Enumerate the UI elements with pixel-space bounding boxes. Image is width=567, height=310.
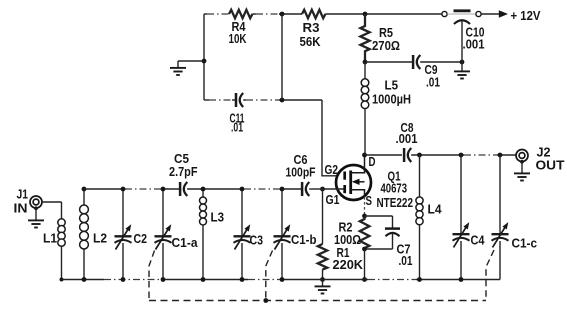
node ground tap junction [202,59,207,64]
wire J1 to L1 [42,201,61,203]
svg-text:IN: IN [14,201,28,216]
node C3 top [240,187,245,192]
variable capacitor C3 [234,189,264,280]
wire R2 bottom to rail [364,249,366,280]
svg-text:G1: G1 [326,192,340,207]
transistor Q1 40673 NTE222 [325,154,414,216]
svg-text:10K: 10K [229,31,247,46]
svg-text:L1: L1 [43,231,57,246]
wire bottom ground rail [62,279,105,281]
node R4/R3 junction [280,12,285,17]
node L4 bottom [417,277,422,282]
variable capacitor C1-a [155,189,199,280]
variable capacitor C2 [115,189,148,280]
node C1-a top [161,187,166,192]
svg-text:C4: C4 [471,233,486,248]
wire to C9 [365,61,412,63]
resistor R1 220K [318,189,364,280]
wire left vertical of bias loop [203,14,205,100]
node C11/divider junction [280,98,285,103]
svg-text:L5: L5 [385,78,399,93]
node L2 top [82,187,87,192]
svg-text:270Ω: 270Ω [372,38,400,53]
node R3/R5 junction [363,12,368,17]
svg-text:220K: 220K [333,257,364,272]
ground under C10 [454,62,470,79]
wire C7 bottom to R2 bottom [365,248,393,250]
wire gang dash from C1-a [149,251,155,300]
svg-text:C1-a: C1-a [172,235,199,250]
wire divider vertical [281,14,283,100]
capacitor C7 .01 [385,216,413,268]
node L4 top [417,153,422,158]
wire R4 to R3 [252,13,256,15]
wire top rail left (gnd side of R4) [204,13,207,15]
node C4 bottom [459,277,464,282]
wire C6 to G1 node [309,188,322,190]
variable capacitor C1-b [274,189,317,280]
svg-text:56K: 56K [300,34,322,49]
svg-text:L2: L2 [93,231,107,246]
node R2/C7 junction [362,247,367,252]
node L3 top [201,187,206,192]
svg-text:100pF: 100pF [286,165,316,180]
variable capacitor C4 [453,155,486,280]
connector J1 IN [14,187,43,216]
node L3 bottom [201,277,206,282]
wire output rail [411,154,464,156]
node R5/L5/C9 junction [363,60,368,65]
wire G2 feed [322,100,344,176]
svg-text:L4: L4 [428,202,443,217]
inductor L3 [200,189,225,280]
svg-text:C1-b: C1-b [291,232,317,247]
node L1 on rail [60,278,64,282]
wire gang dash from C1-c [486,250,494,300]
wire drain to C8 [365,154,403,156]
node C1-b bottom [280,277,285,282]
svg-text:C3: C3 [250,233,264,248]
svg-text:2.7pF: 2.7pF [169,164,198,179]
node C4 top [459,153,464,158]
wire gang dash from C1-b [266,251,273,300]
node C1-a bottom [161,277,166,282]
node source junction [362,214,367,219]
ground under J2 [514,162,530,181]
terminal circle left [442,11,447,16]
inductor L4 [416,155,442,280]
variable capacitor C1-c [492,155,538,280]
wire bias loop bottom right [243,99,246,101]
ground top-left [170,61,186,75]
wire R3 to supply terminal [325,13,442,15]
svg-text:.001: .001 [463,37,485,52]
wire arrow to +12V [481,8,540,23]
svg-text:+ 12V: + 12V [511,8,541,23]
node C1-c top [498,153,503,158]
connector J2 OUT [516,145,565,173]
wire C9 to C10 node [420,61,462,63]
svg-text:40673: 40673 [381,181,408,196]
node C1-b top [280,187,285,192]
svg-text:D: D [369,154,376,169]
capacitor C11 .01 [230,93,245,135]
svg-text:.01: .01 [231,120,243,135]
terminal circle right [476,11,481,16]
ground under J1 [28,208,44,227]
node drain junction [362,153,367,158]
capacitor C5 2.7pF [169,151,198,196]
resistor R4 [229,10,253,46]
svg-text:1000µH: 1000µH [372,92,411,107]
capacitor C6 100pF [286,152,316,196]
node C2 top [121,187,126,192]
svg-text:S: S [366,193,373,208]
capacitor C9 .01 [413,55,440,90]
node L2 bottom [82,277,87,282]
node C2 bottom [121,277,126,282]
svg-text:L3: L3 [211,210,225,225]
wire between supply terminals [447,13,475,15]
capacitor C8 .001 [396,120,418,162]
inductor L5 [361,62,411,155]
svg-text:R3: R3 [303,20,320,35]
svg-text:OUT: OUT [536,158,565,173]
svg-text:.01: .01 [426,75,440,90]
capacitor C10 .001 [454,11,485,62]
wire tank rail L2 to C5 [84,188,125,190]
wire tank rail C5 to C6 [187,188,244,190]
resistor R3 [300,10,326,49]
resistor R2 100 ohm [334,216,369,249]
svg-text:C2: C2 [134,231,148,246]
svg-text:C1-c: C1-c [512,236,538,251]
node R1 on rail [320,277,325,282]
resistor R5 [360,14,400,62]
svg-text:.01: .01 [399,253,413,268]
node source leg on rail [362,277,367,282]
ground under R1 [315,280,331,294]
wire source to C7 [365,215,393,217]
wire G1 lead [323,188,344,190]
node gang junction [263,298,268,303]
wire bias loop bottom left [204,99,209,101]
svg-text:NTE222: NTE222 [377,195,414,210]
node C10/ground junction [460,60,465,65]
svg-text:.001: .001 [396,131,418,146]
inductor L2 [80,189,107,280]
wire gang dash horizontal [149,300,486,302]
inductor L1 [43,202,65,280]
svg-text:G2: G2 [325,162,339,177]
node G1 junction [320,187,325,192]
svg-text:J1: J1 [17,187,29,202]
node C3 bottom [240,277,245,282]
wire to top-left ground [178,60,204,62]
